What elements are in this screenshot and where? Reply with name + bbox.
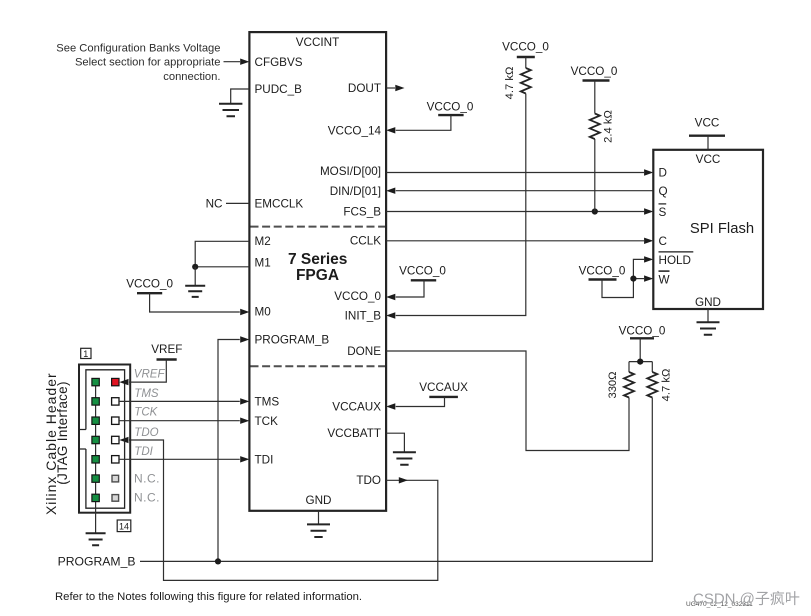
ground (header)	[86, 533, 106, 545]
svg-text:VCC: VCC	[695, 116, 720, 129]
wire 4.7k to PROGRAM_B net	[140, 398, 652, 562]
wire VCCBATT to ground	[386, 433, 404, 452]
svg-text:connection.: connection.	[163, 71, 220, 83]
arrowhead into VCCO_14	[386, 127, 395, 133]
arrowhead into S	[644, 208, 653, 214]
JTAG header outer shell	[79, 365, 130, 513]
svg-text:EMCCLK: EMCCLK	[255, 198, 304, 211]
wire Q to DIN/D[01]	[396, 190, 654, 192]
wire VCCAUX to pin	[396, 397, 445, 407]
wire TDO output loop	[129, 440, 438, 580]
wire TDI header to FPGA	[119, 458, 240, 460]
svg-text:VCCO_14: VCCO_14	[328, 125, 382, 138]
wire junction to ground	[194, 267, 196, 286]
svg-text:4.7 kΩ: 4.7 kΩ	[504, 67, 516, 100]
svg-text:DOUT: DOUT	[348, 82, 381, 95]
svg-text:TCK: TCK	[134, 406, 158, 418]
ground (VCCBATT)	[393, 452, 416, 464]
header pin VREF (red square)	[112, 378, 119, 385]
junction resistor pair	[637, 359, 643, 365]
wire TCK header to FPGA	[119, 420, 240, 422]
svg-text:(JTAG Interface): (JTAG Interface)	[55, 381, 70, 485]
svg-text:See Configuration Banks Voltag: See Configuration Banks Voltage	[56, 42, 220, 54]
arrowhead into VCCAUX pin	[386, 403, 395, 409]
wire VCCO_0 to M0	[150, 293, 240, 312]
svg-text:VCCO_0: VCCO_0	[334, 290, 381, 303]
svg-text:VCCO_0: VCCO_0	[502, 41, 549, 54]
dashed separator 2	[251, 365, 386, 367]
svg-text:N.C.: N.C.	[134, 491, 160, 505]
junction M1/M2	[192, 264, 198, 270]
svg-text:VCCO_0: VCCO_0	[427, 101, 474, 114]
wire VCCO_0 to pin	[396, 280, 424, 297]
svg-text:N.C.: N.C.	[134, 471, 160, 485]
SPI Flash U2	[653, 150, 763, 309]
svg-text:14: 14	[119, 521, 129, 531]
wire M1	[195, 266, 249, 268]
svg-text:VCCAUX: VCCAUX	[419, 381, 468, 394]
svg-text:D: D	[659, 166, 667, 179]
svg-text:VCCO_0: VCCO_0	[571, 65, 618, 78]
svg-text:HOLD: HOLD	[659, 254, 691, 267]
wire MOSI/D[00] to D	[386, 172, 644, 174]
svg-text:TDO: TDO	[134, 427, 158, 439]
FPGA U1	[249, 32, 386, 511]
resistor R2 2.4 kOhm	[594, 81, 596, 114]
wire VCC to flash	[707, 136, 709, 150]
wire VCCO_0 to resistor pair	[629, 338, 652, 361]
svg-text:TDI: TDI	[255, 454, 274, 467]
svg-text:VCCO_0: VCCO_0	[126, 278, 173, 291]
svg-text:TCK: TCK	[255, 415, 279, 428]
arrowhead into C	[644, 238, 653, 244]
arrowhead into D	[644, 169, 653, 175]
wire M2	[195, 241, 249, 266]
svg-text:VCC: VCC	[696, 153, 721, 166]
svg-text:VCCO_0: VCCO_0	[579, 265, 626, 278]
svg-text:GND: GND	[306, 494, 332, 507]
svg-text:VCCO_0: VCCO_0	[399, 264, 446, 277]
wire DOUT output	[386, 87, 395, 89]
svg-text:Select section for appropriate: Select section for appropriate	[75, 57, 221, 69]
arrowhead into VREF pin	[119, 379, 128, 385]
svg-text:Q: Q	[659, 185, 668, 198]
svg-text:M1: M1	[255, 256, 271, 269]
pin 1 marker	[81, 348, 91, 358]
wire FCS_B to S	[386, 211, 644, 213]
wire 4.7k to INIT_B	[396, 94, 526, 316]
svg-text:TDI: TDI	[134, 446, 153, 458]
wire VREF to header pin	[129, 360, 166, 383]
svg-text:CSDN @子疯叶: CSDN @子疯叶	[693, 591, 800, 608]
header ground bus wire	[95, 382, 97, 533]
svg-text:TMS: TMS	[134, 388, 159, 400]
junction PROGRAM_B	[215, 558, 221, 564]
svg-text:DIN/D[01]: DIN/D[01]	[330, 185, 381, 198]
svg-text:330Ω: 330Ω	[607, 371, 619, 398]
svg-text:TDO: TDO	[356, 474, 381, 487]
ground (flash GND)	[697, 322, 720, 334]
arrowhead into M0	[240, 309, 249, 315]
JTAG header inner shell with key notch	[79, 370, 125, 508]
arrowhead TDO out of FPGA	[399, 477, 408, 483]
wire DONE to 330 ohm resistor	[386, 351, 629, 451]
wire VCCO_0 to W and HOLD	[602, 259, 644, 297]
arrowhead into VCCO_0 pin	[386, 294, 395, 300]
wire annotation to CFGBVS	[224, 61, 241, 63]
arrowhead into W	[644, 275, 653, 281]
wire flash GND to ground	[707, 309, 709, 322]
svg-text:M0: M0	[255, 306, 272, 319]
svg-text:M2: M2	[255, 235, 271, 248]
arrowhead into TMS	[240, 398, 249, 404]
svg-text:FCS_B: FCS_B	[343, 205, 381, 218]
resistor R1 4.7 kOhm	[525, 57, 527, 68]
svg-text:VCCO_0: VCCO_0	[619, 325, 666, 338]
svg-text:VCCINT: VCCINT	[296, 36, 340, 49]
wire PUDC_B to ground	[231, 89, 250, 104]
wire NC to EMCCLK	[226, 202, 249, 204]
annotation note text top-left	[56, 42, 220, 83]
svg-text:INIT_B: INIT_B	[345, 310, 382, 323]
resistor R4 4.7 kOhm	[651, 362, 653, 372]
arrowhead DOUT	[395, 85, 404, 91]
dashed separator 1	[251, 226, 386, 228]
svg-text:C: C	[659, 235, 667, 248]
pin 14 marker	[117, 520, 131, 532]
svg-text:MOSI/D[00]: MOSI/D[00]	[320, 165, 381, 178]
svg-text:DONE: DONE	[347, 345, 381, 358]
arrowhead into CFGBVS	[240, 59, 249, 65]
svg-text:VCCAUX: VCCAUX	[332, 401, 381, 414]
svg-text:SPI Flash: SPI Flash	[690, 221, 754, 237]
ground (M1/M2)	[185, 286, 205, 297]
wire CCLK to C	[386, 240, 644, 242]
junction W/HOLD	[630, 276, 636, 282]
svg-text:CFGBVS: CFGBVS	[255, 56, 303, 69]
svg-text:TMS: TMS	[255, 396, 280, 409]
svg-text:2.4 kΩ: 2.4 kΩ	[603, 110, 615, 143]
header pin TDO square	[112, 436, 119, 443]
ground (PUDC_B)	[219, 104, 242, 116]
resistor R3 330 Ohm	[628, 362, 630, 372]
svg-text:PROGRAM_B: PROGRAM_B	[58, 555, 136, 569]
wire VCCO_0 to VCCO_14	[396, 115, 451, 130]
svg-text:VREF: VREF	[151, 343, 182, 356]
svg-text:NC: NC	[206, 198, 223, 211]
header pin TCK square	[112, 417, 119, 424]
svg-text:PUDC_B: PUDC_B	[255, 83, 303, 96]
svg-text:4.7 kΩ: 4.7 kΩ	[661, 369, 673, 402]
svg-text:FPGA: FPGA	[296, 267, 339, 284]
header N.C. squares	[112, 475, 119, 482]
svg-text:Refer to the Notes following t: Refer to the Notes following this figure…	[55, 591, 362, 603]
arrowhead into TCK	[240, 418, 249, 424]
svg-text:S: S	[659, 206, 667, 219]
wire TMS header to FPGA	[119, 400, 240, 402]
arrowhead into PROGRAM_B	[240, 336, 249, 342]
header pin TMS square	[112, 398, 119, 405]
svg-text:GND: GND	[695, 296, 721, 309]
ground (FPGA GND)	[307, 524, 330, 537]
svg-text:7 Series: 7 Series	[288, 251, 347, 268]
junction 2.4k pull-up on S net	[592, 208, 598, 214]
svg-text:VCCBATT: VCCBATT	[327, 427, 381, 440]
svg-text:1: 1	[83, 349, 88, 359]
svg-text:W: W	[659, 273, 670, 286]
header GND pins (green squares)	[92, 378, 99, 501]
wire FPGA GND	[318, 511, 320, 525]
arrowhead into HOLD	[644, 256, 653, 262]
svg-text:PROGRAM_B: PROGRAM_B	[255, 334, 330, 347]
arrowhead into DIN/D[01]	[386, 188, 395, 194]
svg-text:CCLK: CCLK	[350, 235, 381, 248]
arrowhead into header TDO pin	[119, 437, 128, 443]
header pin TDI square	[112, 456, 119, 463]
wire PROGRAM_B net vertical	[218, 340, 240, 562]
arrowhead into TDI	[240, 456, 249, 462]
svg-text:VREF: VREF	[134, 369, 166, 381]
arrowhead into INIT_B	[386, 312, 395, 318]
